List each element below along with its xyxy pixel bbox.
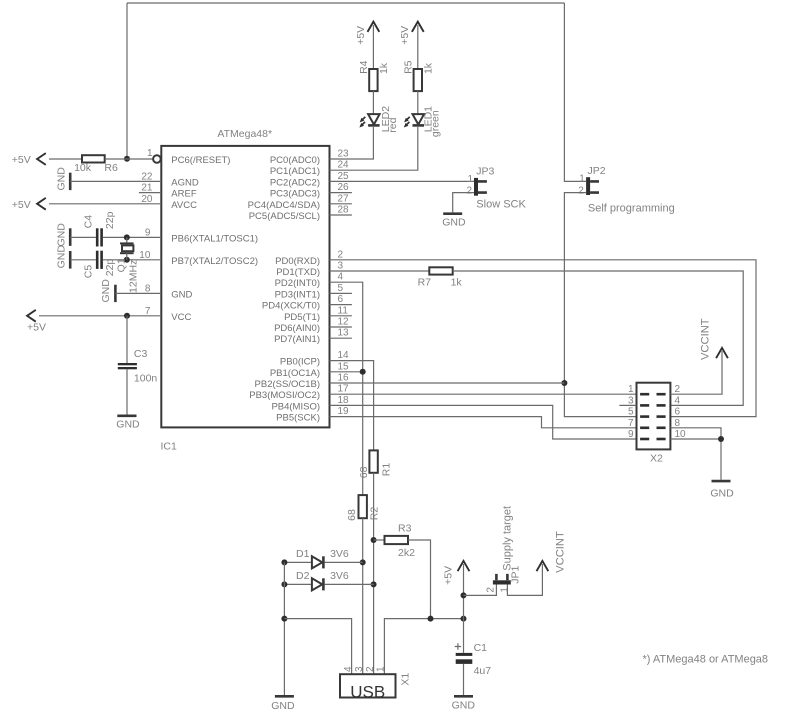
svg-text:1k: 1k: [422, 62, 434, 74]
VCCINT supply arrow (bottom): [537, 531, 567, 573]
svg-text:10: 10: [675, 429, 687, 440]
svg-text:Self programming: Self programming: [588, 203, 675, 215]
unconnected stub pin 21 AREF: [139, 192, 161, 194]
svg-text:VCCINT: VCCINT: [700, 318, 712, 360]
resistor R7 1k: [418, 267, 463, 288]
wire R7 to X2 pin 4: [453, 271, 744, 405]
node PB2 / JP2 junction: [561, 380, 567, 386]
svg-text:C4: C4: [83, 215, 95, 229]
svg-text:8: 8: [675, 418, 681, 429]
unconnected stub pin 28: [330, 214, 352, 216]
node D2 left junction: [281, 581, 287, 587]
svg-text:9: 9: [628, 429, 634, 440]
svg-text:13: 13: [338, 328, 350, 339]
svg-text:D1: D1: [296, 548, 310, 560]
svg-text:23: 23: [338, 149, 350, 160]
node D1 left junction: [281, 559, 287, 565]
wire C3 to ground: [126, 369, 128, 414]
svg-text:PB7(XTAL2/TOSC2): PB7(XTAL2/TOSC2): [171, 256, 258, 267]
wire C5 gnd side: [70, 259, 96, 261]
IC1 left pin numbers: [139, 148, 153, 317]
node usb gnd junction: [281, 616, 287, 622]
svg-text:GND: GND: [710, 488, 734, 500]
svg-text:R7: R7: [418, 277, 432, 289]
wire X2 pin 10 to gnd: [670, 439, 721, 480]
wire R6 to reset node: [105, 158, 153, 160]
svg-text:X2: X2: [650, 453, 663, 465]
wire PB5 pin 19 to X2 pin 7: [330, 417, 637, 428]
svg-text:USB: USB: [350, 682, 385, 701]
wire C4 to pin 9: [103, 236, 161, 238]
svg-text:PD1(TXD): PD1(TXD): [276, 267, 320, 278]
VCCINT supply arrow (X2): [700, 318, 728, 360]
wire PD0 pin 2 to X2 pin 6: [330, 260, 757, 417]
resistor R5 1k: [402, 60, 434, 91]
svg-text:3: 3: [354, 666, 365, 672]
diode D2 3V6: [284, 570, 373, 590]
svg-text:2: 2: [578, 185, 584, 196]
svg-text:1: 1: [628, 384, 634, 395]
svg-text:1: 1: [499, 587, 510, 593]
jumper JP2 Self programming: [578, 165, 674, 215]
svg-text:11: 11: [338, 305, 349, 316]
wire top bus drop to JP2 pin1: [564, 3, 586, 181]
svg-text:17: 17: [338, 384, 350, 395]
IC1 ATMega48 body: [161, 128, 330, 453]
X2 pin contacts: [640, 393, 666, 440]
resistor R6: [74, 155, 118, 174]
wire pin 8 GND: [115, 292, 161, 294]
wire X2 pin 2 to VCCINT: [670, 351, 722, 394]
svg-text:15: 15: [338, 361, 350, 372]
svg-text:1: 1: [467, 174, 473, 185]
svg-text:21: 21: [141, 183, 153, 194]
svg-text:GND: GND: [271, 700, 295, 712]
+5V supply arrow (bottom): [442, 561, 469, 585]
svg-text:PB2(SS/OC1B): PB2(SS/OC1B): [255, 379, 320, 390]
node D2 right junction: [371, 581, 377, 587]
svg-text:27: 27: [338, 193, 350, 204]
svg-text:GND: GND: [116, 419, 140, 431]
wire JP1 pin 2: [464, 585, 497, 596]
svg-text:PC2(ADC2): PC2(ADC2): [270, 177, 320, 188]
svg-text:3: 3: [338, 261, 344, 272]
svg-text:8: 8: [145, 283, 151, 294]
svg-text:26: 26: [338, 182, 350, 193]
wire C1 top: [463, 619, 465, 653]
svg-text:12MHz: 12MHz: [127, 260, 139, 293]
svg-text:1k: 1k: [451, 277, 463, 289]
svg-text:X1: X1: [399, 673, 411, 686]
svg-text:3V6: 3V6: [330, 570, 349, 582]
svg-text:AGND: AGND: [171, 177, 199, 188]
capacitor C4: [83, 211, 116, 246]
svg-text:PB6(XTAL1/TOSC1): PB6(XTAL1/TOSC1): [171, 233, 258, 244]
svg-text:PB1(OC1A): PB1(OC1A): [270, 368, 320, 379]
unconnected stub pin 5: [330, 292, 352, 294]
svg-text:Supply target: Supply target: [502, 506, 514, 571]
ground X2: [710, 481, 734, 500]
svg-text:2: 2: [485, 587, 496, 593]
capacitor C1 4u7: [455, 642, 492, 677]
ground for C4 (rotated): [56, 223, 71, 247]
svg-text:+5V: +5V: [12, 199, 31, 211]
unconnected stub X2 pin 3: [619, 404, 636, 406]
+5V supply arrow above R5: [399, 22, 424, 69]
svg-text:R4: R4: [358, 60, 370, 74]
svg-text:GND: GND: [100, 279, 112, 303]
connector X2 body: [637, 383, 671, 465]
ground for C5 (rotated): [56, 245, 71, 269]
svg-text:PD5(T1): PD5(T1): [284, 312, 320, 323]
pin 1 inverting circle PC6: [153, 155, 161, 163]
svg-text:20: 20: [141, 194, 153, 205]
svg-text:14: 14: [338, 350, 350, 361]
crystal Q1 12MHz: [115, 237, 139, 293]
svg-text:R1: R1: [381, 463, 393, 477]
svg-text:Q1: Q1: [115, 258, 127, 272]
svg-text:PD6(AIN0): PD6(AIN0): [274, 323, 320, 334]
svg-text:5: 5: [338, 283, 344, 294]
wire C1 to ground: [463, 664, 465, 695]
svg-text:6: 6: [338, 294, 344, 305]
wire C5 to pin 10: [103, 259, 161, 261]
svg-text:10: 10: [139, 250, 151, 261]
svg-text:22: 22: [141, 171, 153, 182]
node XTAL1 junction: [124, 234, 130, 240]
node R3 junction on D-: [371, 537, 377, 543]
svg-text:PB4(MISO): PB4(MISO): [271, 401, 320, 412]
svg-text:GND: GND: [171, 289, 192, 300]
wire PB1 pin 15: [330, 371, 363, 373]
capacitor C5: [83, 251, 116, 279]
node D1 junction: [360, 559, 366, 565]
svg-text:3: 3: [628, 395, 634, 406]
resistor R1 68 (D- series): [358, 450, 392, 478]
svg-text:C5: C5: [83, 265, 95, 279]
wire R1 down to USB pin 2 (D- net): [373, 473, 375, 674]
svg-text:GND: GND: [56, 167, 68, 191]
svg-text:VCC: VCC: [171, 312, 191, 323]
resistor R2 68 (D+ series): [346, 495, 381, 521]
svg-text:C1: C1: [474, 642, 488, 654]
svg-text:22p: 22p: [104, 211, 116, 229]
svg-text:JP2: JP2: [588, 165, 606, 177]
svg-text:+5V: +5V: [27, 322, 46, 334]
svg-text:3V6: 3V6: [330, 548, 349, 560]
svg-text:GND: GND: [452, 700, 476, 712]
capacitor C3 100n: [118, 348, 158, 385]
svg-text:4: 4: [338, 272, 344, 283]
unconnected stub pin 6: [330, 304, 352, 306]
svg-text:PC1(ADC1): PC1(ADC1): [270, 166, 320, 177]
svg-text:+5V: +5V: [355, 26, 367, 45]
svg-text:1: 1: [147, 148, 153, 159]
svg-text:6: 6: [675, 407, 681, 418]
svg-text:2: 2: [466, 186, 472, 197]
svg-text:PB5(SCK): PB5(SCK): [276, 413, 320, 424]
svg-text:25: 25: [338, 171, 350, 182]
X2 pin numbers: [628, 384, 686, 440]
svg-text:7: 7: [145, 306, 151, 317]
svg-text:AVCC: AVCC: [171, 200, 197, 211]
wire PD1 pin 3 to R7: [330, 270, 430, 272]
svg-text:GND: GND: [56, 245, 68, 269]
svg-text:R3: R3: [398, 522, 412, 534]
wire R5 to LED1: [417, 91, 419, 114]
wire PB0 pin 14 down (D- net): [330, 361, 374, 451]
svg-text:*) ATMega48 or ATMega8: *) ATMega48 or ATMega8: [643, 654, 769, 666]
unconnected stub pin 27: [330, 203, 352, 205]
wire R2 down to USB pin 3 (D+ net): [362, 518, 364, 674]
ground AGND (rotated): [56, 167, 71, 191]
wire JP3 pin2 to ground: [453, 193, 474, 213]
node XTAL2 junction: [124, 257, 130, 263]
ground C1: [452, 696, 476, 711]
svg-text:GND: GND: [56, 223, 68, 247]
svg-text:PD4(XCK/T0): PD4(XCK/T0): [262, 301, 320, 312]
svg-text:28: 28: [338, 205, 350, 216]
svg-text:1: 1: [376, 666, 387, 672]
wire R3 to +5V rail: [408, 540, 431, 619]
resistor R3 2k2: [374, 522, 415, 559]
diode D1 3V6: [284, 548, 362, 568]
wire gnd rail to USB pin 4: [284, 619, 351, 675]
unconnected stub pin 26: [330, 192, 352, 194]
node X2 gnd junction: [718, 436, 724, 442]
unconnected stub pin 11: [330, 315, 352, 317]
svg-text:PD3(INT1): PD3(INT1): [275, 289, 320, 300]
svg-text:+5V: +5V: [442, 566, 454, 585]
svg-text:PD7(AIN1): PD7(AIN1): [274, 334, 320, 345]
svg-text:4u7: 4u7: [474, 665, 492, 677]
svg-text:PB3(MOSI/OC2): PB3(MOSI/OC2): [249, 390, 320, 401]
+5V supply arrow (reset pullup): [12, 153, 82, 166]
wire PB3 pin 17 to X2 pin 1: [330, 393, 637, 395]
wire JP2 pin2 down to PB2 net: [564, 193, 636, 417]
svg-text:1k: 1k: [378, 62, 390, 74]
wire diode gnd rail: [283, 562, 285, 695]
+5V supply arrow (VCC): [27, 310, 46, 334]
wire top bus: [127, 2, 564, 4]
IC1 right pin numbers: [338, 149, 350, 418]
svg-text:9: 9: [145, 227, 151, 238]
svg-text:2: 2: [365, 666, 376, 672]
svg-text:24: 24: [338, 160, 350, 171]
jumper JP1 Supply target: [485, 506, 521, 593]
svg-text:68: 68: [358, 466, 370, 478]
node JP1 pin2 junction: [461, 592, 467, 598]
svg-text:IC1: IC1: [161, 441, 178, 453]
wire R4 to LED2: [372, 91, 374, 114]
wire JP1 pin 1 to VCCINT: [507, 564, 542, 595]
wire LED1 to pin 24: [330, 126, 418, 170]
USB pin numbers: [343, 666, 387, 672]
LED2 red: [359, 106, 399, 133]
wire PB2 pin 16: [330, 382, 565, 384]
svg-text:VCCINT: VCCINT: [554, 531, 566, 573]
svg-text:4: 4: [675, 395, 681, 406]
node VCC junction: [124, 313, 130, 319]
svg-text:12: 12: [338, 317, 350, 328]
wire top bus left drop to reset node: [126, 3, 128, 159]
svg-text:10k: 10k: [74, 162, 92, 174]
svg-text:red: red: [387, 117, 399, 132]
svg-text:68: 68: [346, 509, 358, 521]
svg-text:R5: R5: [402, 60, 414, 74]
connector X1 USB: [340, 673, 411, 702]
svg-text:+5V: +5V: [12, 154, 31, 166]
svg-text:2k2: 2k2: [398, 547, 415, 559]
wire USB pin1 to +5V rail: [384, 619, 463, 675]
unconnected stub pin 13: [330, 337, 352, 339]
ground JP3: [442, 214, 466, 229]
wire PD2 pin 4 down (D+ net): [330, 282, 363, 495]
LED1 green: [404, 106, 442, 137]
svg-text:16: 16: [338, 373, 350, 384]
node reset junction: [124, 156, 130, 162]
svg-text:GND: GND: [442, 216, 466, 228]
jumper JP3 Slow SCK: [466, 166, 526, 211]
svg-text:PB0(ICP): PB0(ICP): [280, 357, 320, 368]
wire +5V rail up to arrow: [463, 564, 465, 619]
svg-text:JP3: JP3: [476, 166, 494, 178]
svg-text:22p: 22p: [104, 259, 116, 277]
node R3 +5V rail junction: [428, 616, 434, 622]
ground USB shield: [271, 696, 295, 712]
svg-text:1: 1: [579, 173, 585, 184]
svg-text:18: 18: [338, 395, 350, 406]
svg-text:C3: C3: [134, 348, 148, 360]
wire VCC pin 7: [39, 315, 161, 317]
svg-text:AREF: AREF: [171, 189, 197, 200]
unconnected stub pin 12: [330, 326, 352, 328]
IC1 left pin names: [171, 155, 258, 323]
node PB1/PD2 junction: [360, 369, 366, 375]
svg-text:5: 5: [628, 407, 634, 418]
ground C3: [116, 416, 140, 431]
wire X2 pin 8 to gnd: [670, 428, 721, 439]
svg-text:4: 4: [343, 666, 354, 672]
wire AVCC pin 20: [49, 203, 161, 205]
wire PB4 pin 18 to X2 pin 9: [330, 405, 637, 439]
wire pin 25 to JP3: [330, 180, 475, 182]
svg-text:PC3(ADC3): PC3(ADC3): [270, 189, 320, 200]
resistor R4 1k: [358, 60, 390, 91]
wire AGND to pin 22: [70, 180, 161, 182]
wire C4 gnd side: [70, 236, 96, 238]
svg-text:R6: R6: [104, 162, 118, 174]
+5V supply arrow (AVCC): [12, 198, 46, 211]
svg-text:PC4(ADC4/SDA): PC4(ADC4/SDA): [248, 200, 320, 211]
svg-text:2: 2: [338, 249, 344, 260]
svg-text:D2: D2: [296, 570, 310, 582]
svg-text:PD2(INT0): PD2(INT0): [275, 278, 320, 289]
svg-text:100n: 100n: [134, 372, 158, 384]
svg-text:7: 7: [628, 418, 634, 429]
svg-text:R2: R2: [368, 507, 380, 521]
IC1 right pin names: [248, 155, 320, 424]
svg-text:PC5(ADC5/SCL): PC5(ADC5/SCL): [249, 211, 320, 222]
svg-text:19: 19: [338, 406, 350, 417]
svg-text:ATMega48*: ATMega48*: [217, 128, 272, 140]
svg-text:2: 2: [675, 384, 681, 395]
svg-text:PC6(/RESET): PC6(/RESET): [171, 155, 230, 166]
svg-text:Slow SCK: Slow SCK: [476, 199, 526, 211]
+5V supply arrow above R4: [355, 22, 380, 69]
wire VCC to C3: [126, 316, 128, 363]
node C1 rail junction: [461, 616, 467, 622]
svg-text:PC0(ADC0): PC0(ADC0): [270, 155, 320, 166]
ground pin 8 (rotated): [100, 279, 116, 303]
svg-text:green: green: [430, 110, 442, 137]
svg-text:PD0(RXD): PD0(RXD): [275, 256, 320, 267]
svg-text:+5V: +5V: [399, 26, 411, 45]
wire LED2 to pin 23: [330, 126, 374, 159]
